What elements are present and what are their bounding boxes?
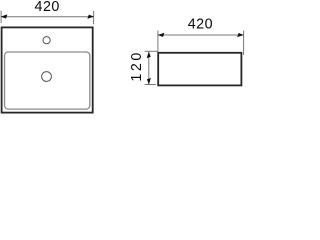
svg-text:420: 420 bbox=[188, 17, 213, 33]
svg-text:420: 420 bbox=[35, 0, 60, 15]
svg-text:120: 120 bbox=[129, 50, 145, 81]
